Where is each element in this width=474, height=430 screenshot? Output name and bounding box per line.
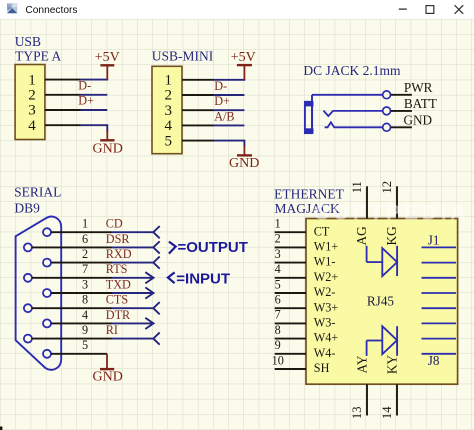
svg-text:10: 10 [272,353,284,367]
USB-MINI pin 5 [165,133,214,149]
DB9 pin 5 [43,338,107,358]
svg-text:1: 1 [28,72,36,88]
switch contact wire to BATT [324,111,383,116]
svg-text:J8: J8 [428,353,440,368]
svg-text:=INPUT: =INPUT [176,270,230,287]
svg-text:USB: USB [15,34,41,49]
sheet corner mark [0,427,2,430]
DC jack terminal GND [383,113,432,132]
svg-text:8: 8 [82,293,88,307]
svg-text:3: 3 [275,247,281,261]
svg-text:RTS: RTS [106,262,128,276]
power +5V (USB-A) [95,50,120,79]
svg-text:1: 1 [275,217,281,231]
svg-text:A/B: A/B [214,109,234,123]
svg-text:14: 14 [380,406,394,419]
RJ45 pin 7 (W3-) [275,308,336,330]
svg-text:W4+: W4+ [314,331,339,345]
svg-text:7: 7 [82,262,88,276]
svg-text:W1+: W1+ [314,240,339,254]
svg-text:J1: J1 [428,232,440,247]
svg-text:GND: GND [404,113,433,128]
wire DC jack center pin to PWR [312,94,383,96]
RJ45 pin 6 (W3+) [275,293,339,315]
svg-text:9: 9 [82,323,88,337]
svg-text:TXD: TXD [106,277,131,291]
USB-A pin 4 [28,118,80,134]
svg-text:D-: D- [214,79,227,93]
ground GND (DB9 pin5) [93,354,123,385]
svg-text:SH: SH [314,361,330,375]
DB9 pin 8 net CTS (out) [24,293,160,315]
svg-text:SERIAL: SERIAL [14,184,61,199]
svg-text:GND: GND [93,142,123,157]
USB-MINI pin 3 [165,103,214,119]
LED D2 (AY-KY) [367,326,398,356]
connector body USB-MINI [152,66,182,153]
RJ45 jack contact stub 8 [422,353,457,355]
svg-text:11: 11 [350,181,364,193]
RJ45 jack contact stub 3 [422,277,457,279]
USB-MINI pin 2 [165,88,214,104]
DB9 pin 7 net RTS (in) [24,262,154,283]
ground GND (USB-MINI) [229,146,259,172]
svg-text:W3-: W3- [314,316,336,330]
svg-text:D+: D+ [214,94,230,108]
svg-text:1: 1 [165,73,173,89]
ground GND (USB-A) [93,131,123,157]
RJ45 pin 14 (KY) [380,355,400,420]
RJ45 pin 9 (W4-) [275,338,336,360]
svg-text:GND: GND [93,370,123,385]
RJ45 pin 12 (KG) [380,181,399,246]
svg-text:RXD: RXD [106,247,132,261]
wire USB-A pin4 to GND [81,125,108,131]
DC jack terminal BATT [383,96,437,115]
wire USB-MINI pin4 (A/B) [214,124,245,126]
DB9 pin 3 net TXD (in) [43,277,154,298]
svg-text:7: 7 [275,308,281,322]
svg-text:6: 6 [82,232,88,246]
svg-text:USB-MINI: USB-MINI [152,48,214,63]
wire USB-A pin2 (D-) [81,94,108,96]
DB9 pin 6 net DSR (out) [24,232,160,254]
svg-text:D-: D- [78,79,91,93]
RJ45 jack contact stub 5 [422,307,457,309]
wire USB-A pin1 to +5V [81,79,109,81]
svg-text:5: 5 [275,277,281,291]
window maximize button [426,6,434,14]
RJ45 jack contact stub 4 [422,292,457,294]
svg-text:DSR: DSR [106,232,131,246]
DB9 pin 1 net CD (out) [43,217,160,239]
DB9 pin 4 net DTR (in) [43,308,154,329]
RJ45 pin 8 (W4+) [275,323,339,345]
label USB TYPE A [15,34,62,63]
DB9 pin 2 net RXD (out) [43,247,160,269]
svg-text:PWR: PWR [404,80,433,95]
svg-text:TYPE A: TYPE A [15,49,61,64]
svg-text:1: 1 [82,217,88,231]
svg-text:W1-: W1- [314,255,336,269]
svg-text:D+: D+ [78,94,94,108]
RJ45 jack contact stub 1 [422,246,457,248]
svg-text:+5V: +5V [231,50,256,65]
svg-text:RI: RI [106,323,118,337]
svg-text:W2-: W2- [314,285,336,299]
svg-text:5: 5 [82,338,88,352]
USB-A pin 2 [28,88,80,104]
power +5V (USB-MINI) [231,50,256,80]
svg-text:=OUTPUT: =OUTPUT [178,239,248,256]
DB9 pin 9 net RI (out) [24,323,160,345]
svg-text:W2+: W2+ [314,270,339,284]
RJ45 pin 4 (W2+) [275,262,339,284]
USB-A pin 1 [28,72,80,88]
svg-text:4: 4 [28,118,36,134]
svg-text:GND: GND [229,156,259,171]
USB-MINI pin 1 [165,73,214,89]
LED D1 (AG-KG) [367,246,398,276]
label SERIAL DB9 [14,184,61,215]
RJ45 pin 13 (AY) [350,355,370,419]
DC jack barrel body [304,95,313,134]
svg-text:CT: CT [314,224,330,238]
svg-text:Connectors: Connectors [25,5,77,16]
RJ45 pin 11 (AG) [350,181,369,245]
wire USB-MINI pin1 to +5V [214,79,246,81]
label ETHERNET MAGJACK [274,187,344,217]
svg-text:BATT: BATT [404,96,437,111]
svg-text:SOFTPEDIA: SOFTPEDIA [315,201,470,225]
svg-text:CD: CD [106,217,123,231]
connector body RJ45 MAGJACK [306,219,458,385]
svg-text:2: 2 [165,88,173,104]
svg-text:12: 12 [380,181,394,194]
svg-text:4: 4 [82,308,88,322]
RJ45 jack contact stub 2 [422,262,457,264]
connector body USB TYPE A [15,65,45,140]
wire USB-MINI pin3 (D+) [214,109,245,111]
RJ45 jack contact stub 7 [422,338,457,340]
RJ45 pin 10 (SH) [272,353,330,375]
svg-text:4: 4 [275,262,281,276]
RJ45 pin 1 (CT) [275,217,330,239]
svg-text:5: 5 [165,133,173,149]
svg-text:W3+: W3+ [314,300,339,314]
switch contact wire to GND [325,122,383,127]
svg-text:8: 8 [275,323,281,337]
svg-text:W4-: W4- [314,346,336,360]
DC jack terminal PWR [383,80,433,99]
svg-text:13: 13 [350,407,364,420]
svg-text:DTR: DTR [106,308,131,322]
svg-text:2: 2 [82,247,88,261]
svg-text:AG: AG [354,226,369,246]
USB-A pin 3 [28,103,80,119]
svg-text:3: 3 [165,103,173,119]
svg-text:DB9: DB9 [14,201,40,216]
RJ45 pin 5 (W2-) [275,277,336,299]
RJ45 pin 3 (W1-) [275,247,336,269]
svg-text:CTS: CTS [106,293,129,307]
RJ45 pin 2 (W1+) [275,232,339,254]
svg-text:2: 2 [275,232,281,246]
svg-text:9: 9 [275,338,281,352]
DB9 connector body [16,217,62,370]
svg-text:6: 6 [275,293,281,307]
svg-text:4: 4 [165,118,173,134]
USB-MINI pin 4 [165,118,214,134]
RJ45 jack contact stub 6 [422,322,457,324]
legend OUTPUT [169,239,248,256]
window icon [7,3,17,13]
svg-text:DC JACK 2.1mm: DC JACK 2.1mm [303,63,401,78]
window close button [455,5,464,14]
svg-text:3: 3 [28,103,36,119]
svg-text:ETHERNET: ETHERNET [274,187,344,202]
legend INPUT [168,270,230,287]
svg-text:2: 2 [28,88,36,104]
svg-text:KG: KG [384,226,399,246]
svg-text:KY: KY [385,355,400,375]
wire USB-MINI pin2 (D-) [214,94,245,96]
wire USB-A pin3 (D+) [81,109,108,111]
svg-text:3: 3 [82,277,88,291]
svg-text:AY: AY [355,355,370,373]
svg-text:+5V: +5V [95,50,120,65]
svg-text:RJ45: RJ45 [367,293,395,308]
wire USB-MINI pin5 to GND [214,141,245,147]
window minimize button [399,8,407,10]
